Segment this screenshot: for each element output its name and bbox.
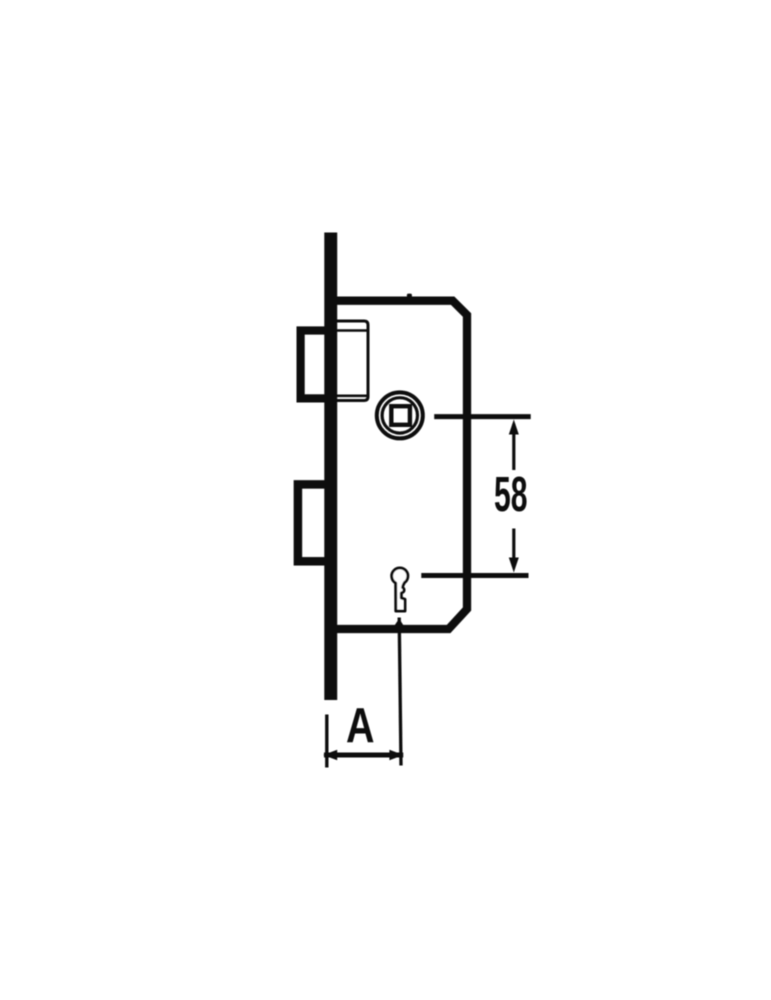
spindle hub inner circle [382, 398, 417, 433]
svg-text:A: A [346, 698, 375, 753]
lock body [337, 301, 467, 629]
dimension A right arrowhead [389, 750, 403, 760]
dimension 58 upper arrowhead [509, 420, 519, 435]
svg-text:58: 58 [494, 467, 528, 522]
faceplate [324, 233, 337, 701]
dimension 58 lower arrowhead [509, 558, 519, 573]
top edge scan nub [407, 294, 412, 299]
extension line crossing tick [395, 619, 404, 626]
spindle square hole [391, 406, 410, 425]
keyhole extension line [421, 573, 528, 578]
deadbolt [298, 484, 332, 561]
latch bolt housing [337, 321, 368, 401]
spindle hub outer circle [377, 392, 423, 438]
dimension A line [324, 753, 403, 758]
spindle extension line [434, 414, 531, 419]
dimension 58 upper arrow shaft [512, 424, 515, 470]
dimension A left extension line [325, 715, 328, 768]
latch housing inner top line [337, 329, 367, 332]
keyhole [392, 568, 408, 611]
dimension A left arrowhead [323, 750, 337, 760]
latch housing inner bottom line [337, 394, 367, 397]
keyhole centre extension line [399, 618, 401, 766]
latch bolt tip [301, 331, 332, 399]
dimension 58 lower arrow shaft [512, 529, 515, 564]
